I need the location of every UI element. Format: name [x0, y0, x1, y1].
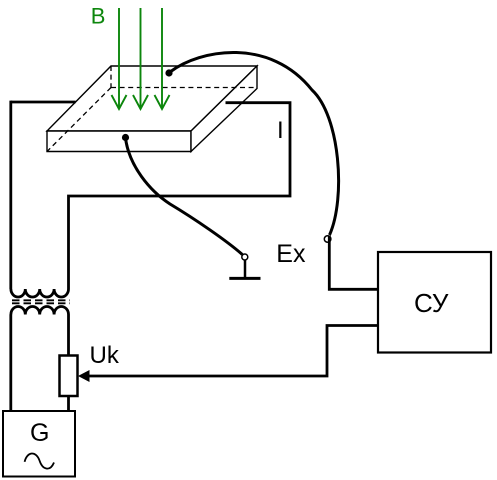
svg-text:Uk: Uk [90, 342, 120, 369]
transformer T primary winding [11, 289, 69, 297]
wire left horizontal to plate [11, 101, 76, 104]
transformer T core [12, 300, 70, 303]
field arrow 3 [155, 8, 170, 109]
potentiometer wiper arrowhead [78, 370, 90, 382]
wire secondary right to potentiometer [67, 315, 70, 356]
svg-text:B: B [91, 4, 106, 29]
ground bar [229, 277, 260, 280]
svg-text:G: G [30, 419, 49, 447]
transformer T secondary winding [11, 307, 69, 315]
sample plate right face [191, 66, 257, 152]
generator sine symbol [25, 454, 54, 469]
sample plate hidden edge back-bottom [111, 87, 256, 89]
potentiometer R [60, 356, 78, 397]
svg-text:СУ: СУ [414, 288, 449, 318]
wire curve from top electrode to Ex terminal [170, 52, 339, 235]
sample plate front face [47, 131, 191, 152]
sample plate hidden edge left-bottom [47, 88, 111, 152]
wire secondary left to generator [9, 315, 12, 412]
Ex terminal circle [324, 236, 331, 243]
wire left rail down to transformer [9, 101, 12, 289]
field arrow 1 [112, 8, 127, 109]
control unit box СУ [378, 252, 491, 353]
generator G box [3, 411, 75, 477]
electrode dot on top face [165, 69, 172, 76]
svg-text:I: I [277, 117, 284, 144]
wire plate right to corner [69, 103, 291, 289]
sample plate top face [47, 66, 257, 131]
ground terminal circle [242, 254, 248, 260]
svg-text:Ex: Ex [276, 240, 306, 268]
electrode dot on front face [122, 134, 129, 141]
wire Ex terminal to control unit [329, 236, 378, 290]
wire curve from front electrode to ground [126, 138, 243, 255]
wire potentiometer to generator [67, 396, 70, 411]
ground stem [244, 260, 247, 279]
wire wiper to control unit [88, 326, 378, 377]
field arrow 2 [133, 8, 148, 109]
sample plate hidden edge vertical [110, 66, 112, 88]
